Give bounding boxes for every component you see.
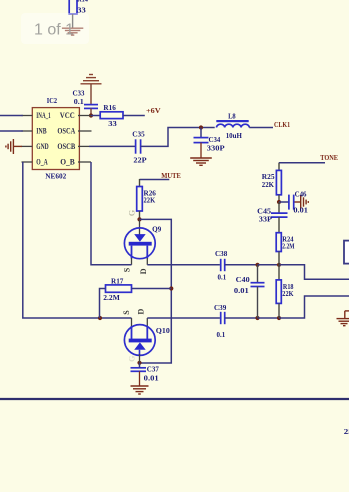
svg-text:10uH: 10uH [226, 131, 242, 140]
power bar symbol above C33 [81, 75, 102, 84]
capacitor C39 [214, 303, 226, 339]
svg-text:Q10: Q10 [156, 326, 170, 335]
resistor R18 [276, 265, 293, 318]
ground at bottom right [337, 311, 349, 326]
wire C34 to ground [200, 143, 202, 158]
junction at VCC [89, 113, 93, 117]
pin VCC [78, 115, 91, 117]
wire O_B down to Q9 source [91, 162, 132, 265]
wire gate node to right bus [140, 219, 172, 363]
svg-text:L8: L8 [228, 111, 236, 120]
ground under R14 [62, 28, 83, 35]
svg-text:GND: GND [36, 142, 49, 151]
wire R16 to +6V [123, 115, 145, 117]
pin of R14 [72, 14, 74, 28]
svg-text:INA_1: INA_1 [36, 111, 50, 120]
inductor L8 [216, 111, 249, 140]
pin O_A [22, 161, 33, 163]
svg-text:R14: R14 [77, 0, 88, 4]
pin GND [22, 145, 33, 147]
svg-text:R16: R16 [103, 103, 116, 112]
svg-text:22K: 22K [262, 180, 274, 189]
svg-text:2.2M: 2.2M [103, 293, 120, 302]
transistor Q9 [124, 219, 161, 264]
wire node to C46 [279, 201, 289, 203]
svg-text:O_A: O_A [36, 158, 48, 167]
svg-text:0.01: 0.01 [293, 205, 308, 214]
wire junction to C37 [139, 363, 141, 368]
sheet border line [0, 398, 349, 400]
svg-text:D: D [139, 268, 148, 274]
transistor Q10 [124, 318, 170, 363]
junction at Q9 gate [137, 217, 141, 221]
wire C33 to VCC net [90, 108, 92, 115]
wire C38 to upper node [225, 264, 258, 266]
capacitor C40 [234, 265, 265, 318]
wire from power bar to C33 [90, 84, 92, 105]
wire lower node to R18 node [258, 317, 280, 319]
svg-text:C40: C40 [236, 275, 250, 284]
ground under C34 [190, 158, 212, 165]
resistor R26 [137, 187, 156, 212]
pin OSCB [78, 145, 89, 147]
wire TONE to R25 [279, 162, 325, 164]
wire C39 to lower node [225, 317, 258, 319]
wire INA_1 to left edge [0, 115, 23, 117]
wire C37 to ground [139, 371, 141, 386]
wire MUTE to R26 [140, 179, 170, 181]
svg-text:25: 25 [344, 427, 349, 436]
svg-text:22K: 22K [282, 289, 293, 298]
wire lower node exit right [279, 296, 349, 318]
svg-text:R17: R17 [111, 277, 124, 286]
pin INA_1 [22, 115, 33, 117]
capacitor C46 [289, 190, 308, 215]
svg-text:INB: INB [36, 127, 47, 136]
wire C35 up to oscillator node [141, 128, 215, 147]
svg-text:+6V: +6V [146, 106, 161, 115]
svg-text:C46: C46 [295, 190, 307, 199]
svg-text:G: G [128, 210, 137, 216]
svg-text:OSCA: OSCA [57, 127, 75, 136]
pin INB [22, 130, 33, 132]
pin OSCA [78, 130, 92, 132]
svg-text:C37: C37 [147, 365, 159, 374]
svg-text:0.1: 0.1 [218, 272, 227, 281]
wire R26 to gate junction [139, 211, 141, 219]
svg-text:IC2: IC2 [47, 96, 57, 105]
svg-text:C39: C39 [214, 303, 226, 312]
wire R24 to node [278, 252, 280, 265]
svg-text:C38: C38 [215, 249, 227, 258]
capacitor C34 [194, 135, 225, 152]
junction R24 bottom [277, 263, 281, 267]
wire R25 to node [278, 195, 280, 202]
svg-text:33: 33 [108, 119, 117, 128]
capacitor C37 [131, 365, 159, 383]
junction R18 bottom [277, 316, 281, 320]
ground at GND pin [6, 139, 22, 154]
wire O_A down to lower row [23, 162, 132, 318]
svg-text:0.01: 0.01 [234, 286, 249, 295]
resistor R17 [103, 277, 131, 303]
part box at right edge [344, 241, 349, 264]
junction below R25 [277, 200, 281, 204]
resistor R16 [100, 103, 123, 128]
wire Q9 drain to C38 [147, 264, 220, 266]
ground under C37 [131, 386, 149, 394]
junction at C37 [137, 361, 141, 365]
svg-text:33P: 33P [259, 215, 273, 224]
resistor R25 [262, 170, 282, 194]
wire upper node exit right [279, 265, 349, 280]
svg-text:Q9: Q9 [152, 224, 161, 233]
svg-text:1 of 1: 1 of 1 [34, 21, 74, 38]
op IC2 NE602 body [32, 96, 79, 180]
svg-text:NE602: NE602 [45, 172, 66, 181]
junction at R17 left [98, 316, 102, 320]
svg-text:2.2M: 2.2M [282, 241, 294, 250]
svg-text:VCC: VCC [60, 111, 75, 120]
wire VCC to R16 [91, 115, 100, 117]
svg-text:O_B: O_B [60, 158, 75, 167]
resistor R24 [276, 233, 294, 252]
svg-text:D: D [136, 308, 145, 314]
svg-text:22K: 22K [144, 196, 156, 205]
junction at R17 right [169, 286, 173, 290]
junction C40 bottom [255, 316, 259, 320]
svg-text:0.01: 0.01 [144, 374, 159, 383]
wire upper node to R24 node [258, 264, 280, 266]
wire INB to left edge [0, 130, 23, 132]
svg-text:OSCB: OSCB [57, 142, 75, 151]
wire L8 to CLK1 [249, 127, 273, 129]
svg-text:0.1: 0.1 [217, 330, 226, 339]
svg-text:C35: C35 [132, 130, 145, 139]
wire Q10 drain to C39 [147, 317, 220, 319]
svg-text:0.1: 0.1 [74, 97, 84, 106]
wire R17 left to lower row [100, 289, 106, 319]
wire junction to C34 [200, 128, 202, 138]
page indicator overlay 1 of 1 [21, 13, 89, 44]
wire OSCB to C35 [89, 145, 136, 147]
svg-text:330P: 330P [207, 143, 225, 152]
pin O_B [78, 161, 91, 163]
svg-text:22P: 22P [133, 155, 147, 164]
junction at C34 [199, 125, 203, 129]
svg-text:S: S [122, 310, 131, 315]
svg-text:S: S [123, 267, 132, 272]
capacitor C38 [215, 249, 227, 281]
capacitor C45 [257, 202, 287, 233]
junction C40 top [255, 263, 259, 267]
svg-text:G: G [128, 356, 137, 362]
resistor R14 (cut off at top) [69, 0, 88, 15]
ground right of C46 [294, 195, 309, 209]
capacitor C33 [73, 89, 99, 109]
svg-text:TONE: TONE [320, 153, 338, 162]
capacitor C35 [132, 130, 147, 165]
svg-text:CLK1: CLK1 [274, 120, 290, 129]
wire R17 right to bus [132, 288, 172, 290]
